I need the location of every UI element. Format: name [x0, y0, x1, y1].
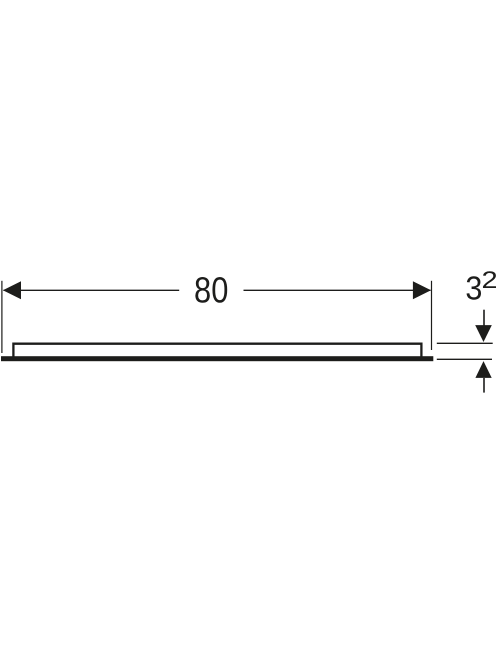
- extension line left of width dimension: [1, 281, 3, 353]
- mirror glass front edge (thick bottom bar): [1, 356, 433, 361]
- svg-text:80: 80: [194, 270, 228, 311]
- svg-text:2: 2: [482, 267, 496, 294]
- thickness dimension upper leader line: [483, 310, 485, 326]
- extension line right of width dimension: [431, 281, 433, 350]
- arrowhead left: [3, 281, 21, 299]
- width dimension line left segment: [4, 289, 180, 291]
- mirror body outline (top and sides): [13, 344, 421, 358]
- width dimension line right segment: [244, 289, 431, 291]
- thickness dimension lower leader line: [483, 378, 485, 393]
- arrowhead right: [413, 281, 431, 299]
- extension line top of thickness dimension: [437, 342, 493, 344]
- svg-text:3: 3: [465, 271, 482, 308]
- thickness dimension arrowhead pointing down: [475, 325, 492, 342]
- thickness dimension arrowhead pointing up: [475, 361, 491, 378]
- extension line bottom of thickness dimension: [437, 358, 492, 360]
